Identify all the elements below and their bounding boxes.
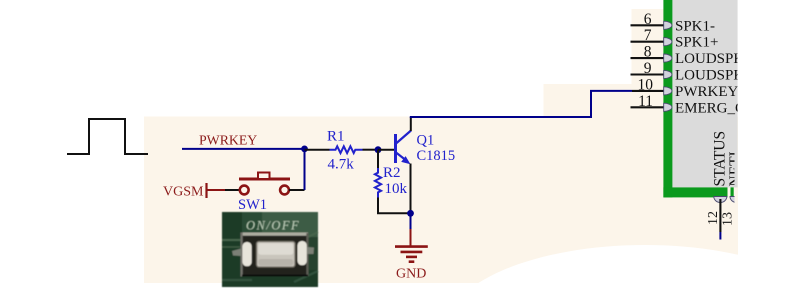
svg-text:SW1: SW1 [238,197,267,213]
svg-text:GND: GND [396,267,426,282]
wire PWRKEY junction to R1 [305,149,330,151]
module green edge bottom [663,187,727,197]
photo of ON/OFF push button on PCB [222,212,318,287]
svg-text:R1: R1 [327,129,345,145]
svg-text:SPK1-: SPK1- [675,18,715,34]
svg-text:9: 9 [644,60,652,77]
wire VGSM to SW1 (dark red part) [207,189,226,191]
switch actuator [257,242,296,268]
svg-text:7: 7 [644,27,652,44]
node junction R1/R2/base [375,146,382,153]
switch SW1 button bump [258,173,270,180]
switch right pin [307,247,314,254]
label NETLIGHT (rotated, clipped) [727,109,744,186]
module green edge vertical [663,0,672,197]
ground symbol bars [395,247,428,262]
wire to SW1 left contact (black part) [225,189,240,191]
wire pin 12 tail (navy) [719,232,721,240]
pin 7 stub [631,41,664,43]
switch SW1 right contact circle [280,186,289,195]
svg-text:ON/OFF: ON/OFF [246,219,300,233]
svg-text:10k: 10k [385,181,408,197]
switch metal body [241,233,309,277]
wire: PWRKEY net horizontal [182,148,305,150]
switch SW1 actuator bar [239,178,290,181]
wire R1 to base junction [363,149,379,151]
resistor R1 [330,146,363,153]
pin 10 stub [632,90,664,92]
transistor Q1 collector arm [396,131,411,144]
wire riser to PWRKEY junction [304,149,306,190]
module pin labels [675,18,763,186]
pin 8 stub [631,57,664,59]
svg-text:8: 8 [644,44,652,61]
wire emitter stub down (black) [410,164,412,211]
svg-text:4.7k: 4.7k [328,156,355,172]
module gray body [672,0,737,187]
svg-text:PWRKEY: PWRKEY [199,132,257,147]
wire collector to module pin10 (navy) [410,91,632,117]
svg-text:6: 6 [644,11,652,28]
pin 11 stub [631,106,664,108]
pin 12 stub [719,199,721,232]
svg-text:10: 10 [638,76,654,93]
wire emitter to ground (navy) [410,210,412,229]
svg-text:C1815: C1815 [417,148,456,164]
module green edge fragment [731,187,734,196]
pin 13 bump (bottom, partial) [730,197,743,203]
transistor Q1 emitter arm with arrow [396,153,411,165]
svg-text:Q1: Q1 [417,132,435,148]
ground stem [410,229,412,246]
wire junction to Q1 base [378,149,394,151]
switch SW1 left contact circle [240,186,249,195]
svg-text:SPK1+: SPK1+ [675,35,718,51]
pin 6 stub [631,24,664,26]
svg-text:11: 11 [638,93,653,110]
switch right pad [298,241,307,265]
VGSM terminal bar [205,183,207,198]
pulse waveform [67,119,148,154]
wire R2 bottom to emitter junction [378,198,411,214]
switch left pad [242,242,251,266]
wire junction down to R2 [377,150,379,168]
svg-text:VGSM: VGSM [163,184,204,199]
node junction PWRKEY/R1/SW1 [301,146,308,153]
svg-text:STATUS: STATUS [712,131,729,187]
pin bumps on module edge [664,21,672,111]
svg-text:PWRKEY: PWRKEY [675,84,739,100]
resistor R2 [375,168,381,198]
pin 12 bump (bottom) [714,197,743,203]
wire SW1 right contact to riser [289,189,305,191]
svg-text:12: 12 [706,211,721,225]
wire collector stub (black) [410,117,412,131]
node junction emitter/R2 [407,210,414,217]
pin 9 stub [631,73,664,75]
transistor Q1 base bar [394,134,397,163]
svg-text:R2: R2 [383,165,401,181]
svg-text:13: 13 [721,212,736,226]
switch left pin [232,249,241,257]
